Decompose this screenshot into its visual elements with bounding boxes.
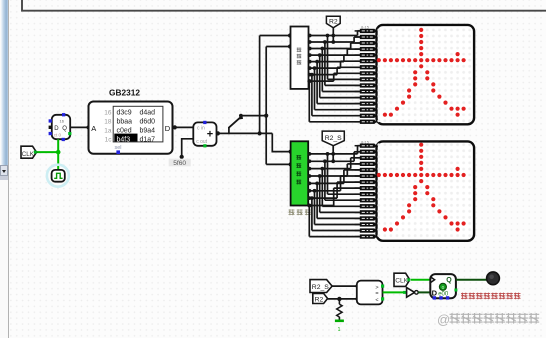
svg-text:R2_S: R2_S xyxy=(325,135,342,142)
svg-text:<: < xyxy=(375,297,378,303)
svg-text:b9a4: b9a4 xyxy=(140,127,156,134)
svg-text:c0ed: c0ed xyxy=(117,127,132,134)
svg-text:Q: Q xyxy=(446,277,452,284)
svg-text:=: = xyxy=(375,291,378,297)
svg-text:GB2312: GB2312 xyxy=(109,87,140,97)
svg-text:CLK: CLK xyxy=(22,151,35,158)
svg-text:ct 0: ct 0 xyxy=(54,133,62,138)
svg-text:0: 0 xyxy=(442,285,445,291)
svg-text:b4f3: b4f3 xyxy=(117,136,131,143)
svg-text:Q: Q xyxy=(62,126,67,132)
svg-text:d1a7: d1a7 xyxy=(140,136,156,143)
svg-text:sel: sel xyxy=(115,145,122,151)
svg-text:c in: c in xyxy=(197,126,205,132)
svg-text:R2_S: R2_S xyxy=(312,284,329,291)
svg-text:16: 16 xyxy=(60,119,65,124)
svg-text:CLK: CLK xyxy=(395,278,408,285)
svg-text:R2: R2 xyxy=(329,19,338,26)
svg-text:18: 18 xyxy=(104,119,112,126)
svg-text:16: 16 xyxy=(104,110,112,117)
svg-text:D: D xyxy=(54,126,59,132)
svg-text:bbaa: bbaa xyxy=(117,119,133,126)
svg-text:1: 1 xyxy=(338,327,341,333)
svg-text:1c: 1c xyxy=(105,136,113,143)
svg-text:A: A xyxy=(91,124,96,133)
svg-text:d3c9: d3c9 xyxy=(117,110,132,117)
svg-text:D: D xyxy=(165,124,171,133)
svg-text:d6d0: d6d0 xyxy=(140,119,156,126)
svg-text:@: @ xyxy=(437,312,450,327)
svg-text:d4ad: d4ad xyxy=(140,110,156,117)
svg-text:R2: R2 xyxy=(315,296,324,303)
svg-text:1a: 1a xyxy=(104,127,112,134)
svg-text:5f60: 5f60 xyxy=(173,160,186,167)
svg-text:+: + xyxy=(207,129,213,141)
